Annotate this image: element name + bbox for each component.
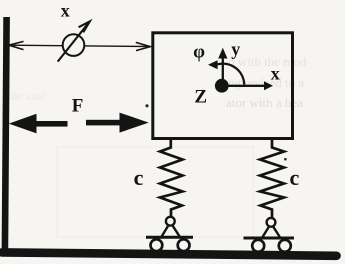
pin circle left [166, 217, 175, 226]
wall [2, 17, 10, 252]
center of mass Z dot [215, 79, 229, 93]
roller truck right legs [262, 226, 280, 238]
spring left [160, 139, 183, 217]
axis x [226, 85, 265, 87]
dimension arrowhead right [136, 42, 151, 50]
roller wheel left-1 [151, 239, 163, 251]
svg-text:x: x [61, 0, 70, 20]
force arrow right [86, 120, 120, 126]
svg-text:the anal: the anal [8, 89, 46, 103]
stray ink dot near block left edge [145, 104, 148, 107]
svg-text:x: x [271, 63, 280, 83]
axis y [222, 58, 224, 86]
svg-text:F: F [72, 95, 84, 116]
ground [2, 252, 337, 255]
roller truck right bar [244, 237, 295, 240]
svg-text:c: c [290, 165, 300, 190]
force arrow left [9, 114, 37, 134]
roller truck left legs [162, 225, 180, 237]
bleed-through faint figure box [57, 147, 253, 237]
svg-text:Z: Z [194, 87, 207, 108]
svg-text:φ: φ [193, 42, 205, 63]
dimension line x (wall to block) [9, 45, 151, 46]
rotation arc phi [217, 64, 244, 85]
roller wheel left-2 [178, 239, 190, 251]
roller wheel right-1 [252, 240, 264, 252]
mass block [153, 33, 293, 139]
svg-text:c: c [134, 165, 144, 190]
svg-text:y: y [231, 39, 240, 59]
dial gauge needle arrow [58, 23, 89, 62]
roller truck left bar [146, 236, 193, 239]
pin circle right [267, 218, 276, 227]
roller wheel right-2 [279, 240, 291, 252]
stray ink dot near right spring [284, 158, 287, 161]
spring right [260, 139, 284, 218]
dimension arrowhead left [9, 41, 24, 49]
dial gauge circle [63, 34, 85, 56]
